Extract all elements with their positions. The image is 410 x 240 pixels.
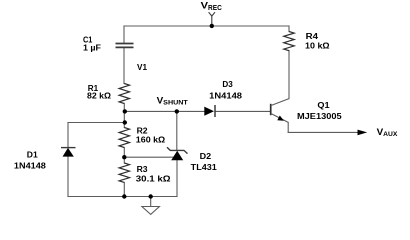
wire TL431 ref (R2/R3 junction to D2): [124, 156, 173, 158]
resistor R1 82k: [119, 84, 129, 104]
svg-text:D1: D1: [27, 150, 38, 160]
wire top rail: [124, 25, 289, 27]
svg-text:10 kΩ: 10 kΩ: [305, 40, 330, 50]
svg-text:1N4148: 1N4148: [209, 91, 242, 101]
wire TL431 cathode (VSHUNT to D2): [176, 111, 178, 150]
svg-text:30.1 kΩ: 30.1 kΩ: [136, 173, 171, 183]
svg-text:D2: D2: [200, 151, 212, 161]
svg-text:V1: V1: [137, 62, 147, 72]
wire bottom rail: [68, 196, 177, 198]
wire Q1 emitter down: [287, 122, 289, 132]
wire D3 cathode to Q1 base: [215, 110, 271, 112]
resistor R3 30.1k: [119, 163, 129, 182]
svg-text:REC: REC: [208, 5, 222, 12]
node VREC terminal: [209, 12, 215, 26]
junction TL431 cathode: [175, 109, 179, 113]
wire D1 top rail: [68, 122, 125, 124]
wire TL431 anode to bottom rail: [176, 160, 178, 196]
wire D1 branch lower: [67, 157, 69, 197]
svg-text:Q1: Q1: [317, 100, 329, 110]
capacitor C1: [116, 44, 134, 48]
wire ground stub: [150, 197, 152, 207]
svg-text:82 kΩ: 82 kΩ: [87, 91, 111, 101]
junction VREC: [210, 24, 214, 28]
svg-text:R3: R3: [137, 164, 148, 174]
shunt regulator D2 TL431: [167, 147, 188, 160]
wire R1 to R2 (through junctions): [123, 104, 125, 128]
ground: [142, 207, 160, 215]
resistor R4 10k: [284, 32, 294, 51]
diode D3 1N4148: [204, 105, 215, 117]
svg-text:TL431: TL431: [191, 162, 217, 172]
junction R2/R3 divider: [122, 155, 126, 159]
junction D1 rail: [123, 120, 127, 124]
wire left column top (top rail to C1): [123, 26, 125, 43]
junction ground: [149, 194, 153, 198]
wire D1 branch upper: [67, 123, 69, 148]
wire right column (top rail to R4): [288, 26, 290, 32]
junction R3 bottom: [122, 194, 126, 198]
wire C1 to R1: [123, 48, 125, 84]
node VAUX arrow: [358, 130, 368, 136]
transistor Q1 MJE13005: [271, 99, 289, 123]
svg-text:AUX: AUX: [383, 131, 398, 138]
wire VSHUNT rail (R1 junction to D3 anode): [125, 110, 205, 112]
svg-text:1 µF: 1 µF: [83, 42, 101, 52]
svg-text:D3: D3: [222, 79, 233, 89]
wire R2 to R3: [123, 148, 125, 164]
wire R3 to bottom rail: [123, 183, 125, 197]
svg-text:SHUNT: SHUNT: [163, 100, 188, 107]
svg-text:160 kΩ: 160 kΩ: [136, 135, 166, 145]
wire R4 to Q1 collector: [288, 51, 290, 99]
svg-text:1N4148: 1N4148: [14, 161, 46, 171]
junction VSHUNT at R1: [123, 109, 127, 113]
resistor R2 160k: [119, 128, 129, 148]
wire VAUX out: [288, 131, 358, 133]
diode D1 1N4148: [61, 148, 76, 157]
svg-text:MJE13005: MJE13005: [297, 111, 342, 121]
